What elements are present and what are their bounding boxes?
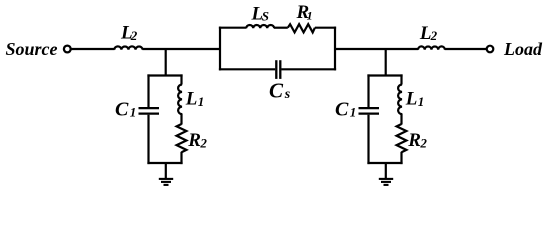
svg-text:Load: Load bbox=[503, 39, 543, 59]
resistor R2 (right) bbox=[397, 124, 407, 152]
resistor R2 (left) bbox=[177, 124, 187, 152]
label LS bbox=[251, 4, 270, 25]
middle box top-left wire bbox=[219, 27, 247, 29]
label L1 (left) bbox=[185, 89, 205, 110]
middle box bottom-left wire bbox=[219, 68, 275, 70]
svg-text:S: S bbox=[262, 9, 269, 24]
inductor LS bbox=[246, 25, 274, 28]
svg-text:2: 2 bbox=[430, 28, 438, 43]
label Cs bbox=[269, 79, 291, 103]
right shunt box bottom wire bbox=[367, 162, 402, 164]
svg-text:C: C bbox=[335, 98, 349, 120]
wire node 2 to right shunt bbox=[385, 48, 387, 77]
svg-text:1: 1 bbox=[350, 104, 357, 119]
left shunt left wire lower (C1 to bottom) bbox=[147, 115, 149, 164]
load terminal bbox=[487, 46, 494, 53]
svg-text:1: 1 bbox=[307, 9, 313, 23]
svg-text:C: C bbox=[269, 79, 284, 103]
svg-text:1: 1 bbox=[198, 94, 205, 109]
right shunt left wire lower (C1 to bottom) bbox=[367, 115, 369, 164]
svg-text:1: 1 bbox=[418, 94, 425, 109]
right shunt box top wire bbox=[367, 74, 402, 76]
wire to ground (right) bbox=[385, 163, 387, 178]
inductor L1 (left) bbox=[178, 85, 182, 115]
svg-text:1: 1 bbox=[130, 104, 137, 119]
label Source bbox=[6, 39, 58, 59]
middle box right edge wire bbox=[334, 27, 336, 71]
label R2 (left) bbox=[187, 130, 207, 151]
label R1 bbox=[296, 2, 313, 23]
source terminal bbox=[64, 46, 71, 53]
svg-text:C: C bbox=[115, 98, 129, 120]
label Load bbox=[503, 39, 543, 59]
svg-text:2: 2 bbox=[199, 136, 207, 151]
left shunt left wire upper (to C1) bbox=[147, 74, 149, 107]
svg-text:L: L bbox=[405, 89, 418, 110]
capacitor C1 (right) bbox=[359, 108, 380, 114]
left shunt box bottom wire bbox=[147, 162, 182, 164]
capacitor C1 (left) bbox=[139, 108, 160, 114]
label L2 (right) bbox=[419, 23, 438, 44]
right shunt right wire upper (to L1) bbox=[400, 74, 402, 84]
left shunt box top wire bbox=[147, 74, 182, 76]
svg-text:Source: Source bbox=[6, 39, 58, 59]
label L2 (left) bbox=[120, 23, 138, 44]
middle box top-right wire bbox=[315, 27, 336, 29]
ground (left) bbox=[159, 179, 173, 185]
middle box left edge wire bbox=[219, 27, 221, 71]
left shunt right wire upper (to L1) bbox=[180, 74, 182, 84]
wire source to L2 bbox=[71, 48, 114, 50]
wire L2 to middle box (node 1) bbox=[142, 48, 220, 50]
wire to ground (left) bbox=[165, 163, 167, 178]
ground (right) bbox=[379, 179, 393, 185]
resistor R1 bbox=[288, 24, 315, 32]
label R2 (right) bbox=[407, 130, 427, 151]
capacitor Cs bbox=[276, 60, 280, 79]
wire node 1 to left shunt bbox=[165, 48, 167, 77]
inductor L2 (right series) bbox=[418, 46, 445, 49]
wire L1 to R2 (right) bbox=[400, 114, 402, 125]
wire LS to R1 bbox=[274, 27, 288, 29]
wire L1 to R2 (left) bbox=[180, 114, 182, 125]
inductor L1 (right) bbox=[398, 85, 402, 115]
svg-text:R: R bbox=[187, 130, 201, 151]
wire R2 to bottom (left) bbox=[180, 152, 182, 164]
svg-text:2: 2 bbox=[419, 136, 427, 151]
wire L2 to load bbox=[445, 48, 487, 50]
label C1 (left) bbox=[115, 98, 136, 120]
right shunt left wire upper (to C1) bbox=[367, 74, 369, 107]
wire R2 to bottom (right) bbox=[400, 152, 402, 164]
inductor L2 (left series) bbox=[114, 46, 142, 49]
label C1 (right) bbox=[335, 98, 356, 120]
svg-text:2: 2 bbox=[130, 28, 138, 43]
label L1 (right) bbox=[405, 89, 425, 110]
middle box bottom-right wire bbox=[281, 68, 336, 70]
svg-text:L: L bbox=[185, 89, 198, 110]
wire middle box to L2 right (node 2) bbox=[335, 48, 418, 50]
svg-text:s: s bbox=[284, 87, 291, 102]
svg-text:R: R bbox=[407, 130, 421, 151]
